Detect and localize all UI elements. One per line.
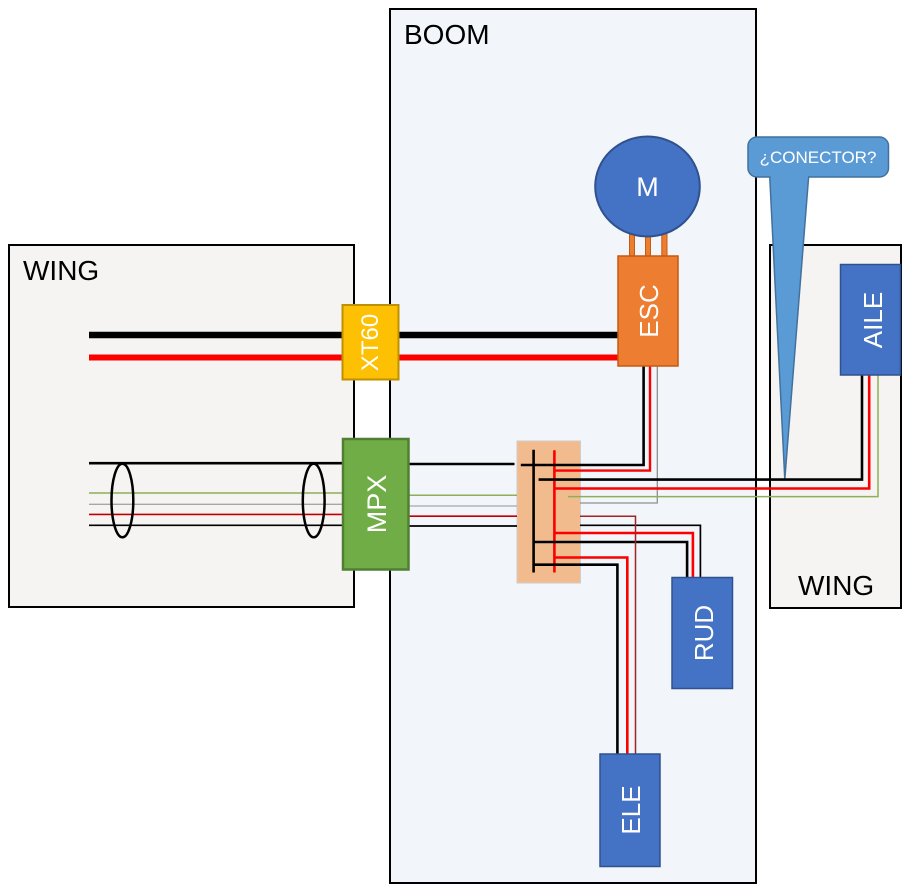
wing wire thin black left xyxy=(89,524,344,526)
svg-text:MPX: MPX xyxy=(362,475,392,534)
elevator wire thin red xyxy=(580,516,636,755)
motor M xyxy=(595,137,700,237)
ESC wire red xyxy=(554,366,650,471)
ESC wire gray xyxy=(580,366,657,503)
svg-text:WING: WING xyxy=(798,570,874,601)
elevator wire black xyxy=(534,565,618,755)
wing wire green right xyxy=(407,494,517,496)
servo connector strip xyxy=(517,441,581,583)
svg-text:M: M xyxy=(636,172,659,202)
right wing box xyxy=(770,245,901,608)
ESC wire black xyxy=(521,366,644,465)
wing wire thin black right xyxy=(407,525,517,527)
cable loop ellipse 2 xyxy=(303,464,325,538)
svg-text:¿CONECTOR?: ¿CONECTOR? xyxy=(760,148,877,167)
MPX connector xyxy=(343,439,409,570)
aileron wire red xyxy=(554,375,869,489)
ESC box xyxy=(618,256,678,366)
wing wire black (MPX signal) left xyxy=(89,462,344,465)
svg-text:WING: WING xyxy=(23,255,99,286)
strip bus vertical red xyxy=(553,450,556,572)
wing wire green left xyxy=(89,492,344,494)
ELE servo xyxy=(600,754,660,867)
battery wire red xyxy=(89,355,620,361)
svg-text:ELE: ELE xyxy=(616,785,646,834)
RUD servo xyxy=(672,578,733,689)
wing wire thin red left xyxy=(89,513,344,515)
motor stub 1 xyxy=(630,228,635,256)
svg-text:XT60: XT60 xyxy=(357,314,384,371)
svg-text:RUD: RUD xyxy=(689,605,719,661)
aileron wire green xyxy=(568,375,878,497)
AILE servo xyxy=(841,265,901,376)
rudder wire black xyxy=(534,542,688,581)
svg-text:AILE: AILE xyxy=(858,292,888,348)
motor stub 3 xyxy=(662,228,667,256)
rudder wire red xyxy=(554,533,693,578)
wing wire gray right xyxy=(407,505,517,507)
battery wire black xyxy=(89,332,620,339)
svg-text:ESC: ESC xyxy=(634,284,664,337)
aileron wire black xyxy=(539,375,862,480)
rudder wire thin black xyxy=(580,525,700,578)
wing wire thin red right xyxy=(407,515,517,517)
callout ¿CONECTOR? xyxy=(748,137,889,479)
elevator wire red xyxy=(554,558,627,756)
boom fuselage box xyxy=(390,9,756,883)
XT60 connector xyxy=(343,305,399,380)
strip bus vertical black xyxy=(532,450,535,573)
wing wire black (MPX signal) right xyxy=(407,463,515,466)
left wing box xyxy=(9,245,354,607)
motor stub 2 xyxy=(646,228,651,256)
wing wire gray left xyxy=(89,503,344,505)
svg-text:BOOM: BOOM xyxy=(404,19,490,50)
cable loop ellipse 1 xyxy=(112,464,134,538)
